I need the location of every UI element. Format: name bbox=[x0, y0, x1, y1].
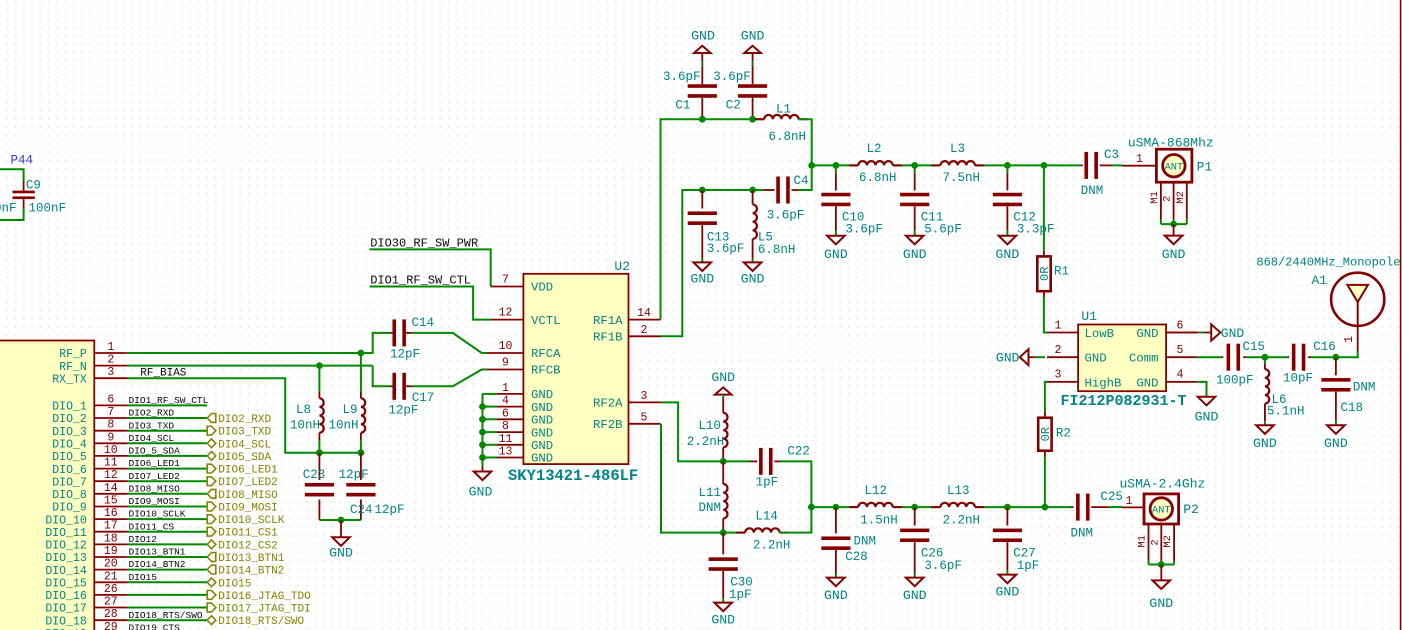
svg-text:GND: GND bbox=[824, 588, 848, 603]
ground below P2 bbox=[1160, 565, 1162, 581]
pin 13 GND bbox=[497, 457, 523, 459]
svg-text:C24: C24 bbox=[350, 503, 373, 517]
svg-text:DIO15: DIO15 bbox=[218, 578, 251, 590]
pin 9 RFCB bbox=[487, 369, 523, 371]
svg-text:RF_BIAS: RF_BIAS bbox=[140, 367, 187, 379]
svg-text:L11: L11 bbox=[698, 486, 721, 500]
wire RX_TX / RF_BIAS bbox=[128, 378, 361, 453]
svg-text:100pF: 100pF bbox=[1216, 374, 1254, 388]
svg-text:C2: C2 bbox=[726, 99, 741, 113]
connector P2 bbox=[1122, 506, 1144, 508]
svg-text:2: 2 bbox=[1055, 344, 1062, 357]
svg-text:C25: C25 bbox=[1100, 490, 1123, 504]
inductor L2 bbox=[849, 164, 858, 166]
wire DIO30_RF_SW_PWR to U2 VDD bbox=[370, 249, 491, 286]
wire RF_N bbox=[128, 365, 373, 367]
wire C14 to RFCA (diagonal) bbox=[411, 333, 487, 353]
svg-text:C22: C22 bbox=[787, 445, 810, 459]
capacitor C9 bbox=[23, 181, 25, 191]
svg-text:29: 29 bbox=[104, 621, 118, 630]
svg-text:M1: M1 bbox=[1137, 535, 1149, 548]
node junction bbox=[479, 416, 486, 423]
hierarchical label DIO7_LED2 bbox=[207, 477, 216, 486]
svg-text:3: 3 bbox=[107, 366, 114, 379]
pin 3 HighB U1 bbox=[1047, 381, 1078, 383]
svg-text:2.2nH: 2.2nH bbox=[943, 513, 981, 527]
svg-text:1: 1 bbox=[1136, 153, 1143, 166]
svg-text:DIO19_CTS: DIO19_CTS bbox=[129, 622, 181, 630]
node junction bbox=[479, 403, 486, 410]
wire to R1 bbox=[1043, 165, 1045, 250]
wire L1 down to main row bbox=[799, 119, 812, 165]
svg-text:DIO7_LED2: DIO7_LED2 bbox=[218, 477, 277, 489]
hierarchical label DIO16_JTAG_TDO bbox=[207, 591, 216, 600]
hierarchical label DIO13_BTN1 bbox=[207, 553, 216, 562]
svg-text:11: 11 bbox=[104, 457, 118, 470]
svg-text:6: 6 bbox=[1177, 319, 1184, 332]
node junction R1 top bbox=[1041, 162, 1048, 169]
svg-text:1: 1 bbox=[1343, 336, 1356, 343]
svg-text:11: 11 bbox=[499, 433, 513, 446]
pin 18 DIO_12 bbox=[94, 543, 128, 545]
svg-text:DIO8_MISO: DIO8_MISO bbox=[218, 490, 278, 502]
svg-text:0R: 0R bbox=[1039, 427, 1053, 441]
svg-text:C3: C3 bbox=[1104, 148, 1119, 162]
svg-text:10: 10 bbox=[499, 340, 513, 353]
svg-text:M1: M1 bbox=[1149, 191, 1161, 204]
svg-text:DIO_14: DIO_14 bbox=[45, 565, 87, 578]
svg-text:2: 2 bbox=[641, 324, 648, 337]
svg-text:28: 28 bbox=[104, 608, 118, 621]
svg-text:RF_N: RF_N bbox=[59, 361, 87, 374]
svg-text:8: 8 bbox=[502, 420, 509, 433]
svg-text:DIO_10: DIO_10 bbox=[45, 514, 87, 527]
wire bbox=[128, 468, 207, 470]
node junction P1 gnd bbox=[1170, 221, 1177, 228]
node junction bbox=[338, 517, 345, 524]
svg-text:GND: GND bbox=[711, 370, 735, 385]
svg-text:GND: GND bbox=[531, 452, 553, 466]
svg-text:DIO17_JTAG_TDI: DIO17_JTAG_TDI bbox=[218, 604, 310, 616]
svg-text:L8: L8 bbox=[296, 403, 311, 417]
node junction C16/C18 bbox=[1333, 354, 1340, 361]
hierarchical label DIO4_SCL bbox=[207, 439, 216, 448]
pin 28 DIO_18 bbox=[94, 619, 128, 621]
svg-text:LowB: LowB bbox=[1085, 327, 1115, 341]
svg-text:5: 5 bbox=[641, 411, 648, 424]
wire P44 net bottom bbox=[0, 209, 24, 221]
svg-text:RFCA: RFCA bbox=[531, 347, 561, 361]
svg-text:C15: C15 bbox=[1243, 340, 1266, 354]
svg-text:5.6pF: 5.6pF bbox=[924, 223, 962, 237]
pin 26 DIO_16 bbox=[94, 594, 128, 596]
wire bbox=[128, 531, 207, 533]
wire bbox=[128, 569, 207, 571]
svg-text:DIO_2: DIO_2 bbox=[52, 413, 87, 426]
inductor L6 bbox=[1264, 357, 1266, 364]
svg-text:10nH: 10nH bbox=[290, 419, 320, 433]
svg-text:C23: C23 bbox=[303, 468, 326, 482]
ground below P1 bbox=[1173, 224, 1175, 236]
pin 1 GND bbox=[497, 393, 523, 395]
svg-text:GND: GND bbox=[1195, 409, 1219, 424]
svg-text:1: 1 bbox=[1055, 319, 1062, 332]
capacitor C18 bbox=[1335, 357, 1337, 375]
svg-text:26: 26 bbox=[104, 583, 118, 596]
ground below L6 bbox=[1256, 425, 1274, 434]
node L9 bottom junction bbox=[358, 449, 365, 456]
svg-text:DNM: DNM bbox=[1353, 381, 1376, 395]
svg-text:6: 6 bbox=[502, 407, 509, 420]
node junction C1 bbox=[699, 116, 706, 123]
wire RF2A down bbox=[661, 402, 724, 461]
svg-text:C4: C4 bbox=[794, 174, 809, 188]
wire GND bus bbox=[482, 394, 484, 467]
svg-text:7: 7 bbox=[107, 406, 114, 419]
pin 10 DIO_5 bbox=[94, 455, 128, 457]
node junction L5 bbox=[749, 187, 756, 194]
svg-text:2: 2 bbox=[1149, 539, 1161, 545]
svg-text:DIO4_SCL: DIO4_SCL bbox=[218, 439, 271, 451]
pin 6 GND bbox=[497, 418, 523, 420]
svg-text:868/2440MHz_Monopole: 868/2440MHz_Monopole bbox=[1256, 255, 1400, 269]
svg-text:DIO_12: DIO_12 bbox=[45, 540, 87, 553]
svg-text:2: 2 bbox=[1162, 196, 1174, 202]
ground below C28 bbox=[827, 578, 845, 587]
pin 7 VDD bbox=[491, 286, 524, 288]
svg-text:3: 3 bbox=[1055, 369, 1062, 382]
svg-text:ANT: ANT bbox=[1152, 505, 1171, 517]
wire RF2B down bbox=[661, 424, 723, 533]
ground below C12 bbox=[999, 236, 1017, 245]
svg-text:HighB: HighB bbox=[1085, 376, 1122, 390]
node junction C2 bbox=[749, 116, 756, 123]
pin M1 P1 bbox=[1160, 182, 1162, 219]
wire U1 pin3 to R2 bbox=[1045, 382, 1047, 412]
pin 1 RF_P bbox=[94, 352, 128, 354]
pin 10 RFCA bbox=[487, 352, 523, 354]
hierarchical label DIO17_JTAG_TDI bbox=[207, 603, 216, 612]
svg-text:VCTL: VCTL bbox=[531, 314, 561, 328]
node L8 bottom junction bbox=[316, 449, 323, 456]
wire RF_N to C17 bbox=[373, 366, 391, 387]
capacitor C22 bbox=[723, 460, 750, 462]
svg-text:DIO9_MOSI: DIO9_MOSI bbox=[218, 503, 277, 515]
pin M2 P1 bbox=[1186, 182, 1188, 219]
svg-text:GND: GND bbox=[741, 29, 765, 44]
pin 7 DIO_2 bbox=[94, 417, 128, 419]
svg-text:DIO18_RTS/SWO: DIO18_RTS/SWO bbox=[129, 610, 203, 621]
svg-text:GND: GND bbox=[996, 351, 1020, 366]
pin 15 DIO_9 bbox=[94, 506, 128, 508]
hierarchical label DIO8_MISO bbox=[207, 489, 216, 498]
svg-text:ANT: ANT bbox=[1165, 162, 1184, 174]
svg-text:C1: C1 bbox=[675, 99, 690, 113]
svg-text:DIO_9: DIO_9 bbox=[52, 502, 87, 515]
svg-text:DIO4_SCL: DIO4_SCL bbox=[129, 433, 175, 444]
svg-text:21: 21 bbox=[104, 570, 118, 583]
capacitor C12 bbox=[1004, 162, 1011, 169]
wire DIO1_RF_SW_CTL to U2 VCTL bbox=[370, 287, 491, 320]
svg-text:20: 20 bbox=[104, 558, 118, 571]
wire bbox=[128, 404, 207, 406]
svg-text:DIO3_TXD: DIO3_TXD bbox=[129, 420, 175, 431]
svg-text:DIO18_RTS/SWO: DIO18_RTS/SWO bbox=[218, 616, 304, 628]
svg-text:M2: M2 bbox=[1162, 535, 1174, 548]
wire U1 pin5 row bbox=[1197, 356, 1221, 358]
svg-text:12pF: 12pF bbox=[388, 403, 418, 417]
wire RF_P bbox=[128, 352, 361, 354]
svg-text:3.3pF: 3.3pF bbox=[1017, 223, 1055, 237]
svg-text:DIO2_RXD: DIO2_RXD bbox=[129, 408, 175, 419]
pin 16 DIO_10 bbox=[94, 518, 128, 520]
svg-text:DIO11_CS: DIO11_CS bbox=[129, 521, 175, 532]
svg-text:C16: C16 bbox=[1313, 340, 1336, 354]
svg-text:3.6pF: 3.6pF bbox=[663, 70, 701, 84]
wire bottom row bbox=[811, 506, 858, 508]
svg-text:4: 4 bbox=[1177, 369, 1184, 382]
ground U2 bbox=[482, 467, 484, 472]
svg-text:GND: GND bbox=[1149, 596, 1173, 611]
svg-text:P2: P2 bbox=[1183, 502, 1199, 517]
svg-text:DIO6_LED1: DIO6_LED1 bbox=[218, 465, 278, 477]
svg-text:DIO_13: DIO_13 bbox=[45, 552, 87, 565]
svg-text:FI212P082931-T: FI212P082931-T bbox=[1061, 393, 1187, 410]
wire C1-C2-L1 row bbox=[702, 118, 764, 120]
inductor L11 bbox=[722, 461, 724, 484]
svg-text:GND: GND bbox=[1136, 376, 1158, 390]
pin 11 DIO_6 bbox=[94, 468, 128, 470]
wire P2 pins to gnd bbox=[1148, 561, 1150, 565]
svg-text:GND: GND bbox=[1324, 436, 1348, 451]
sheet border (right edge) bbox=[1400, 0, 1402, 630]
ground below C30 bbox=[714, 603, 732, 612]
ground below C26 bbox=[906, 578, 924, 587]
ground below L5 bbox=[744, 262, 762, 271]
svg-text:RFCB: RFCB bbox=[531, 364, 561, 378]
svg-text:DIO1_RF_SW_CTL: DIO1_RF_SW_CTL bbox=[129, 395, 209, 406]
svg-text:Comm: Comm bbox=[1129, 352, 1159, 366]
node junction P2 gnd bbox=[1158, 561, 1165, 568]
svg-text:3: 3 bbox=[641, 390, 648, 403]
svg-text:DIO15: DIO15 bbox=[129, 572, 158, 583]
capacitor C27 bbox=[1004, 504, 1011, 511]
svg-text:10pF: 10pF bbox=[1283, 372, 1313, 386]
svg-text:L9: L9 bbox=[342, 403, 357, 417]
pin 9 DIO_4 bbox=[94, 442, 128, 444]
svg-text:6.8nH: 6.8nH bbox=[758, 243, 796, 257]
wire C16 to antenna bbox=[1336, 351, 1358, 357]
pin 2 P2 bbox=[1160, 524, 1162, 561]
svg-text:GND: GND bbox=[741, 271, 765, 286]
svg-text:C28: C28 bbox=[845, 550, 868, 564]
hierarchical label DIO10_SCLK bbox=[207, 515, 216, 524]
pin 11 GND bbox=[497, 444, 523, 446]
svg-text:DIO8_MISO: DIO8_MISO bbox=[129, 483, 181, 494]
wire bbox=[128, 430, 207, 432]
svg-text:DIO14_BTN2: DIO14_BTN2 bbox=[218, 566, 284, 578]
svg-text:DIO_3: DIO_3 bbox=[52, 426, 87, 439]
svg-text:GND: GND bbox=[329, 546, 353, 561]
hierarchical label DIO14_BTN2 bbox=[207, 565, 216, 574]
pin 5 Comm U1 bbox=[1166, 356, 1197, 358]
pin 14 RF1A bbox=[629, 319, 661, 321]
svg-text:GND: GND bbox=[469, 484, 493, 499]
svg-text:GND: GND bbox=[691, 29, 715, 44]
wire bbox=[128, 543, 207, 545]
svg-text:1: 1 bbox=[502, 382, 509, 395]
svg-text:DNM: DNM bbox=[1071, 526, 1094, 540]
wire C17 to RFCB (diagonal) bbox=[412, 370, 487, 387]
svg-text:DIO10_SCLK: DIO10_SCLK bbox=[218, 515, 284, 527]
svg-text:U1: U1 bbox=[1081, 309, 1097, 324]
svg-text:DIO_16: DIO_16 bbox=[45, 590, 87, 603]
capacitor C30 bbox=[722, 533, 724, 555]
svg-text:17: 17 bbox=[104, 520, 118, 533]
pin M1 P2 bbox=[1148, 524, 1150, 561]
svg-text:uSMA-2.4Ghz: uSMA-2.4Ghz bbox=[1120, 477, 1206, 492]
svg-text:15: 15 bbox=[104, 495, 118, 508]
svg-text:3.6pF: 3.6pF bbox=[924, 559, 962, 573]
capacitor C13 bbox=[701, 190, 703, 209]
svg-text:3.6pF: 3.6pF bbox=[713, 70, 751, 84]
pin 2 P1 bbox=[1173, 182, 1175, 219]
svg-text:SKY13421-486LF: SKY13421-486LF bbox=[508, 467, 638, 485]
svg-text:L12: L12 bbox=[865, 484, 888, 498]
svg-text:GND: GND bbox=[1085, 352, 1107, 366]
svg-text:1pF: 1pF bbox=[756, 476, 779, 490]
pin 2 RF1B bbox=[629, 335, 661, 337]
pin 3 RF2A bbox=[629, 401, 661, 403]
svg-text:DIO5_SDA: DIO5_SDA bbox=[218, 452, 271, 464]
svg-text:C14: C14 bbox=[412, 316, 435, 330]
capacitor C25 bbox=[1071, 506, 1074, 508]
capacitor C10 bbox=[833, 162, 840, 169]
svg-text:3.6pF: 3.6pF bbox=[767, 209, 805, 223]
connector P1 bbox=[1122, 165, 1156, 167]
wire bbox=[128, 518, 207, 520]
inductor L9 bbox=[360, 353, 362, 392]
svg-text:VDD: VDD bbox=[531, 281, 553, 295]
svg-text:DIO9_MOSI: DIO9_MOSI bbox=[129, 496, 180, 507]
svg-text:DIO_17: DIO_17 bbox=[45, 603, 86, 616]
svg-text:12pF: 12pF bbox=[390, 348, 420, 362]
svg-text:DIO_5: DIO_5 bbox=[52, 451, 87, 464]
ground below U1 pin4 bbox=[1197, 382, 1206, 397]
wire bbox=[128, 581, 207, 583]
ground below C23/C24 bbox=[340, 520, 342, 537]
svg-text:2.2nH: 2.2nH bbox=[687, 435, 725, 449]
svg-text:12: 12 bbox=[104, 469, 118, 482]
svg-text:4: 4 bbox=[502, 395, 509, 408]
svg-text:1: 1 bbox=[107, 341, 114, 354]
svg-text:DIO7_LED2: DIO7_LED2 bbox=[129, 471, 181, 482]
pin 14 DIO_8 bbox=[94, 493, 128, 495]
pin 3 RX_TX bbox=[94, 377, 128, 379]
inductor L13 bbox=[931, 506, 940, 508]
wire bbox=[128, 594, 207, 596]
svg-text:RF2A: RF2A bbox=[593, 397, 623, 411]
svg-text:GND: GND bbox=[1162, 247, 1186, 262]
svg-text:L3: L3 bbox=[950, 142, 965, 156]
svg-text:5.1nH: 5.1nH bbox=[1267, 404, 1305, 418]
node RF_N junction bbox=[316, 362, 323, 369]
svg-text:U2: U2 bbox=[614, 259, 630, 274]
hierarchical label DIO15 bbox=[207, 578, 216, 587]
node junction RF2A row bbox=[720, 458, 727, 465]
svg-text:GND: GND bbox=[1136, 327, 1158, 341]
svg-text:L2: L2 bbox=[867, 142, 882, 156]
svg-text:1.5nH: 1.5nH bbox=[860, 513, 898, 527]
inductor L5 bbox=[752, 190, 754, 205]
wire bbox=[128, 607, 207, 609]
capacitor C15 bbox=[1222, 356, 1224, 358]
svg-text:DIO13_BTN1: DIO13_BTN1 bbox=[218, 553, 284, 565]
svg-text:DIO30_RF_SW_PWR: DIO30_RF_SW_PWR bbox=[370, 236, 478, 250]
svg-text:100nF: 100nF bbox=[29, 202, 67, 216]
svg-text:100nF: 100nF bbox=[0, 202, 17, 216]
node junction bbox=[479, 429, 486, 436]
svg-text:DIO_15: DIO_15 bbox=[45, 578, 87, 591]
svg-text:GND: GND bbox=[824, 247, 848, 262]
pin 12 VCTL bbox=[491, 319, 524, 321]
svg-text:12pF: 12pF bbox=[339, 468, 369, 482]
svg-text:10nH: 10nH bbox=[328, 419, 358, 433]
resistor R1 bbox=[1043, 251, 1045, 257]
hierarchical label DIO9_MOSI bbox=[207, 502, 216, 511]
pin 1 LowB U1 bbox=[1047, 332, 1078, 334]
svg-text:P1: P1 bbox=[1197, 160, 1213, 175]
inductor L14 bbox=[723, 532, 745, 534]
svg-text:RF1B: RF1B bbox=[593, 331, 623, 345]
power GND arrow left of U1 pin2 bbox=[1036, 356, 1045, 358]
antenna A1 bbox=[1357, 326, 1359, 351]
pin 4 GND U1 bbox=[1166, 381, 1197, 383]
node RF_P junction bbox=[358, 350, 365, 357]
wire bbox=[128, 619, 207, 621]
svg-text:6: 6 bbox=[107, 393, 114, 406]
pin 5 RF2B bbox=[629, 423, 661, 425]
svg-text:GND: GND bbox=[903, 588, 927, 603]
svg-text:12: 12 bbox=[499, 307, 513, 320]
svg-text:DIO_5_SDA: DIO_5_SDA bbox=[129, 446, 181, 457]
pin 2 GND U1 bbox=[1047, 356, 1078, 358]
pin 12 DIO_7 bbox=[94, 480, 128, 482]
wire bbox=[128, 493, 207, 495]
svg-text:14: 14 bbox=[104, 482, 118, 495]
IC module (left, partially off-screen) bbox=[0, 341, 94, 630]
svg-text:GND: GND bbox=[903, 247, 927, 262]
ground below C11 bbox=[906, 236, 924, 245]
ground below C10 bbox=[827, 236, 845, 245]
svg-text:R2: R2 bbox=[1056, 427, 1071, 441]
node junction C13 bbox=[699, 187, 706, 194]
svg-text:9: 9 bbox=[107, 431, 114, 444]
wire bbox=[128, 442, 207, 444]
svg-text:0R: 0R bbox=[1038, 267, 1052, 281]
svg-text:L10: L10 bbox=[698, 419, 721, 433]
hierarchical label DIO2_RXD bbox=[207, 414, 216, 423]
svg-text:16: 16 bbox=[104, 507, 118, 520]
pin 19 DIO_13 bbox=[94, 556, 128, 558]
capacitor C16 bbox=[1287, 356, 1289, 358]
node junction bbox=[479, 454, 486, 461]
op-amp U2 body bbox=[523, 274, 628, 464]
svg-text:A1: A1 bbox=[1312, 273, 1328, 288]
inductor L12 bbox=[849, 506, 858, 508]
svg-text:GND: GND bbox=[996, 247, 1020, 262]
ground below C18 bbox=[1327, 425, 1345, 434]
